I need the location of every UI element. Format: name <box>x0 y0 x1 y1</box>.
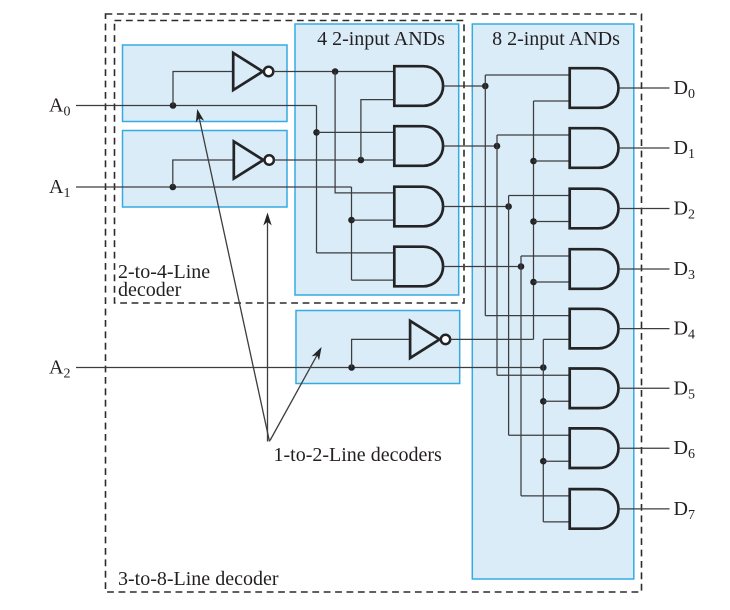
cyan box: 1-to-2-line decoder 3 (A2) <box>296 311 460 384</box>
node: A0' branch <box>332 68 339 75</box>
node: A2 bus junction <box>540 364 547 371</box>
wire: D3 output <box>619 268 670 270</box>
wire: A1 to AND3 bottom input <box>352 219 395 221</box>
wire: A2' from U3 to A2' bus <box>450 338 533 340</box>
wire: A0 riser down <box>316 106 318 253</box>
svg-text:A1: A1 <box>49 176 70 201</box>
node: A2 to D6 <box>540 458 547 465</box>
svg-text:D3: D3 <box>674 258 695 283</box>
wire: term bus 2 vertical <box>508 196 510 436</box>
wire: A0 to AND4 top input <box>317 252 395 254</box>
AND gate for output D0 <box>570 68 619 108</box>
wire: A2 to D4 gate bottom input <box>543 338 569 340</box>
node: A2' to D2 <box>530 218 537 225</box>
svg-text:D7: D7 <box>674 498 695 523</box>
wire: D2 output <box>619 208 670 210</box>
node: A1 branch in decoder2 <box>170 184 177 191</box>
svg-text:4 2-input ANDs: 4 2-input ANDs <box>317 28 445 50</box>
node: A2 branch in decoder3 <box>348 364 355 371</box>
arrow: to decoder 3 <box>270 354 318 441</box>
node: A2 to D5 <box>540 398 547 405</box>
wire: A0 to AND2 top input <box>317 131 395 133</box>
wire: A2' bus vertical <box>533 101 535 339</box>
wire: A1' riser to AND1 bottom input <box>361 100 394 160</box>
wire: A2 horizontal <box>76 367 543 369</box>
cyan box: 1-to-2-line decoder 2 (A1) <box>123 131 288 208</box>
node: term bus 2 junction <box>505 203 512 210</box>
svg-text:8 2-input ANDs: 8 2-input ANDs <box>492 28 620 50</box>
svg-text:D2: D2 <box>674 198 695 223</box>
node: A2' to D3 <box>530 279 537 286</box>
node: term bus 0 junction <box>482 83 489 90</box>
wire: D0 output <box>619 87 670 89</box>
svg-text:A2: A2 <box>49 357 70 382</box>
wire: term bus 1 vertical <box>496 135 498 375</box>
svg-text:D5: D5 <box>674 377 695 402</box>
wire: D7 output <box>619 508 670 510</box>
wire: riser to inverter U1 input <box>173 72 233 106</box>
wire: riser to inverter U2 input <box>173 160 234 187</box>
wire: A2' to D2 gate bottom input <box>534 221 570 223</box>
node: A0 to AND2 <box>313 129 320 136</box>
wire: A2 to D5 gate bottom input <box>543 400 569 402</box>
inverter U2 (A1 complement) <box>234 141 263 178</box>
wire: A2 bus vertical <box>542 339 544 522</box>
wire: term 1 to D5 gate top input <box>497 374 570 376</box>
wire: A1 riser down <box>351 187 353 280</box>
AND gate for output D5 <box>570 369 619 409</box>
wire: term bus 3 vertical <box>520 256 522 496</box>
inner dashed box: 2-to-4-Line decoder <box>115 21 465 304</box>
node: A1' branch <box>358 157 365 164</box>
wire: AND1 (A0'A1') output <box>443 85 485 87</box>
inverter U3 (A2 complement) <box>410 321 440 358</box>
AND gate AND3 (A0'A1) <box>394 187 443 227</box>
AND gate for output D2 <box>570 189 619 229</box>
svg-text:decoder: decoder <box>118 279 182 301</box>
wire: A0' riser to AND3 top input <box>335 72 394 193</box>
AND gate for output D4 <box>570 309 619 349</box>
wire: term 0 to D4 gate top input <box>485 315 569 317</box>
wire: D4 output <box>619 328 670 330</box>
AND gate for output D3 <box>570 249 619 289</box>
svg-text:D1: D1 <box>674 137 695 162</box>
svg-text:A0: A0 <box>49 95 70 120</box>
node: A0 branch in decoder1 <box>170 102 177 109</box>
node: term bus 3 junction <box>518 263 525 270</box>
wire: A2' to D1 gate bottom input <box>534 160 570 162</box>
AND gate for output D7 <box>570 489 619 529</box>
wire: D6 output <box>619 447 670 449</box>
wire: term 0 to D0 gate top input <box>485 74 569 76</box>
outer dashed box: 3-to-8-Line decoder <box>106 14 642 592</box>
svg-text:D4: D4 <box>674 318 695 343</box>
svg-text:D0: D0 <box>674 77 695 102</box>
AND gate for output D6 <box>570 428 619 468</box>
AND gate for output D1 <box>570 128 619 168</box>
wire: term 1 to D1 gate top input <box>497 134 570 136</box>
node: term bus 1 junction <box>494 143 501 150</box>
arrow: to decoder 1 <box>199 117 270 442</box>
wire: A1 horizontal <box>76 186 352 188</box>
wire: A1' from U2 to AND2 bottom input <box>274 159 394 161</box>
wire: term 2 to D2 gate top input <box>509 195 570 197</box>
cyan box: 8 2-input ANDs <box>472 24 634 579</box>
wire: A2' to D3 gate bottom input <box>534 281 570 283</box>
wire: term 2 to D6 gate top input <box>509 434 570 436</box>
cyan box: 4 2-input ANDs <box>295 24 459 295</box>
wire: A0' from U1 to AND1 top input <box>273 71 394 73</box>
wire: term 3 to D7 gate top input <box>521 495 570 497</box>
wire: A1 to AND4 bottom input <box>352 279 395 281</box>
wire: AND3 (A0'A1) output <box>443 206 508 208</box>
wire: term bus 0 vertical <box>484 75 486 316</box>
AND gate AND1 (A0'A1') <box>394 66 443 106</box>
wire: AND4 (A0A1) output <box>443 266 521 268</box>
cyan box: 1-to-2-line decoder 1 (A0) <box>123 45 288 122</box>
wire: term 3 to D3 gate top input <box>521 255 570 257</box>
svg-text:D6: D6 <box>674 437 695 462</box>
svg-text:1-to-2-Line decoders: 1-to-2-Line decoders <box>274 444 442 466</box>
wire: AND2 (A0A1') output <box>443 145 497 147</box>
wire: A0 horizontal <box>76 105 317 107</box>
wire: D1 output <box>619 147 670 149</box>
wire: D5 output <box>619 387 670 389</box>
wire: A2 to D6 gate bottom input <box>543 460 569 462</box>
arrow: to decoder 2 <box>267 220 269 441</box>
node: A1 to AND3 <box>348 217 355 224</box>
svg-text:3-to-8-Line decoder: 3-to-8-Line decoder <box>118 568 279 590</box>
wire: A2 to D7 gate bottom input <box>543 521 569 523</box>
wire: riser to inverter U3 input <box>352 339 411 367</box>
node: A2' to D1 <box>530 158 537 165</box>
AND gate AND2 (A0A1') <box>394 126 443 166</box>
inverter U1 (A0 complement) <box>233 53 263 90</box>
wire: A2' to D0 gate bottom input <box>534 100 570 102</box>
AND gate AND4 (A0A1) <box>394 247 443 287</box>
